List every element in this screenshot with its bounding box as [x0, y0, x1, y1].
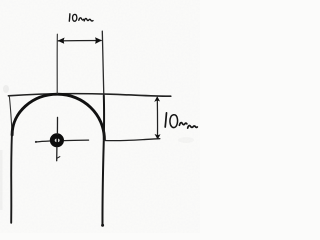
- top label "10mm" : digit 1: [68, 14, 71, 21]
- small barb at bottom of crosshair: [57, 157, 60, 159]
- right dimension bottom arrowhead: [155, 134, 161, 140]
- paper background: [0, 0, 200, 233]
- right label "10mm" : digit 1: [165, 113, 166, 127]
- top label "10mm" : first m squiggle: [79, 18, 84, 20]
- crosshair vertical through donut (splits the hole): [56, 137, 58, 145]
- faint scan smudge top-left corner: [3, 85, 9, 93]
- left slot edge: [10, 131, 13, 223]
- crosshair left arm: [36, 141, 50, 142]
- right label "10mm" : digit 0: [170, 115, 178, 128]
- top label "10mm" : digit 0: [73, 14, 77, 21]
- pen blob at left end of arm: [35, 141, 37, 143]
- centre extension line to right dimension: [104, 139, 160, 141]
- right slot edge (thick lower part): [102, 96, 104, 226]
- right label "10mm" : second m squiggle: [188, 126, 198, 129]
- top dimension right arrowhead: [95, 37, 102, 44]
- top dimension line: [58, 40, 101, 42]
- faint scan smudge right of label: [178, 137, 194, 143]
- pen blob at bottom of right edge: [101, 224, 104, 227]
- short left vertical of bounding box: [9, 96, 12, 131]
- centre mark: heavy donut: [50, 133, 64, 147]
- centre mark: white hole: [55, 139, 60, 143]
- top horizontal construction line through dome apex: [8, 94, 170, 97]
- paper grain: [0, 0, 200, 233]
- crosshair vertical upper segment: [56, 117, 58, 134]
- dome arc (semicircular top of slot): [12, 94, 104, 139]
- right dimension top arrowhead: [154, 96, 160, 102]
- vertical centreline above dome: [56, 34, 58, 93]
- crosshair right arm: [64, 139, 88, 142]
- faint scan streak left edge: [0, 150, 3, 210]
- right extension line (thin upper part): [102, 31, 104, 95]
- top label "10mm" : second m squiggle: [84, 19, 93, 21]
- crosshair vertical lower segment: [56, 147, 58, 161]
- right dimension line (vertical): [156, 98, 158, 138]
- top dimension left arrowhead: [58, 38, 65, 44]
- right label "10mm" : first m squiggle: [179, 123, 187, 126]
